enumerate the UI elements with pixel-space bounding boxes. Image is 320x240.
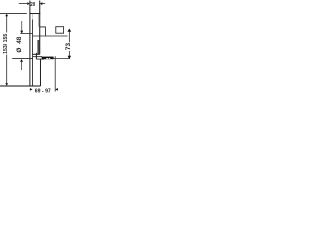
- svg-text:153/ 155: 153/ 155: [3, 34, 9, 54]
- svg-text:20: 20: [30, 2, 35, 8]
- svg-text:69 - 97: 69 - 97: [35, 88, 51, 94]
- svg-text:Ø: Ø: [16, 48, 23, 53]
- svg-text:73: 73: [65, 43, 72, 51]
- svg-text:48: 48: [16, 36, 23, 44]
